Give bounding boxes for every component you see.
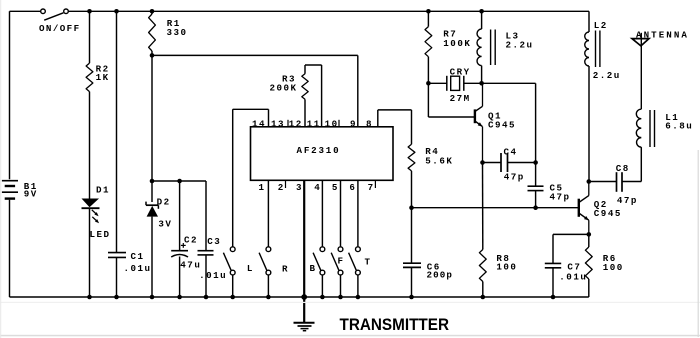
- node bottom rail C2: [177, 295, 182, 300]
- capacitor C1: [108, 253, 126, 258]
- node bottom rail switch L: [230, 295, 235, 300]
- svg-text:C945: C945: [594, 208, 622, 219]
- label C2: [184, 235, 198, 246]
- svg-text:CRY: CRY: [450, 67, 471, 78]
- node bottom rail switch B: [320, 295, 325, 300]
- switch B: [313, 247, 325, 297]
- label 200K: [270, 83, 298, 94]
- label .01u C1: [124, 263, 152, 274]
- label 9V: [24, 189, 38, 200]
- crystal CRY 27M: [428, 76, 481, 91]
- resistor R4: [408, 110, 415, 208]
- node R4 bottom junction: [409, 205, 414, 210]
- resistor R3: [302, 65, 322, 127]
- label 47p C8: [617, 195, 638, 206]
- wire pin 6 riser: [357, 180, 359, 246]
- label C945 Q1: [488, 119, 516, 130]
- switch F: [331, 247, 343, 297]
- svg-text:7: 7: [368, 182, 375, 193]
- wire pin 9 riser: [357, 55, 359, 126]
- svg-text:5: 5: [332, 182, 339, 193]
- node crystal right collector: [479, 81, 484, 86]
- node top rail L3: [479, 9, 484, 14]
- switch S1 ON/OFF: [41, 9, 69, 20]
- pin 11 label: [307, 119, 321, 130]
- pin 6 label: [349, 182, 356, 193]
- pin 9 label: [350, 119, 357, 130]
- label 47p C5: [550, 191, 571, 202]
- svg-text:3: 3: [296, 182, 303, 193]
- svg-text:6: 6: [349, 182, 356, 193]
- node Q2 emitter junction: [587, 232, 592, 237]
- label R6: [603, 253, 617, 264]
- svg-text:9V: 9V: [24, 189, 38, 200]
- label R4: [425, 146, 439, 157]
- label R2: [96, 63, 110, 74]
- label ANTENNA: [636, 30, 689, 41]
- label B1: [24, 181, 38, 192]
- op-amp IC U1 AF2310 body: [251, 127, 394, 181]
- label L3: [506, 31, 520, 42]
- label R: [282, 264, 289, 275]
- label 2.2u L2: [593, 70, 621, 81]
- node bottom rail R8: [481, 295, 486, 300]
- svg-text:47p: 47p: [617, 195, 638, 206]
- svg-text:ANTENNA: ANTENNA: [636, 30, 689, 41]
- pin 5 label: [332, 182, 339, 193]
- svg-text:1: 1: [259, 182, 266, 193]
- wire D2 to bottom rail: [151, 217, 153, 297]
- svg-text:5.6K: 5.6K: [425, 156, 453, 167]
- svg-text:T: T: [365, 257, 372, 268]
- node bottom rail switch R: [266, 295, 271, 300]
- svg-text:1K: 1K: [96, 72, 110, 83]
- pin 14 label: [252, 119, 266, 130]
- wire D1 to bottom rail: [89, 208, 91, 297]
- svg-text:D2: D2: [157, 196, 171, 207]
- node top rail R7: [426, 9, 431, 14]
- resistor R7: [425, 11, 432, 83]
- node crystal left: [426, 81, 431, 86]
- wire rail to R2: [89, 11, 91, 63]
- label 100 R6: [603, 262, 624, 273]
- wire pin 4 riser: [321, 180, 323, 246]
- svg-text:B: B: [310, 263, 317, 274]
- wire bottom ground rail: [10, 296, 589, 298]
- label C8: [616, 163, 630, 174]
- label R8: [496, 253, 510, 264]
- wire pin 8 riser: [377, 110, 379, 127]
- label 200p: [427, 270, 453, 281]
- wire pin 14 riser: [268, 109, 270, 127]
- svg-text:.01u: .01u: [199, 270, 227, 281]
- label C7: [567, 262, 581, 273]
- wire 3V to C2: [179, 181, 181, 251]
- wire down to switch L: [232, 109, 234, 247]
- node C5 bottom junction: [533, 205, 538, 210]
- wire C6 to bottom rail: [411, 267, 413, 297]
- svg-text:C2: C2: [184, 235, 198, 246]
- zener diode D2: [146, 202, 158, 217]
- pin 4 label: [314, 182, 321, 193]
- wire pin 3 riser ground: [303, 180, 305, 322]
- wire left edge from rail to battery: [9, 11, 11, 179]
- node bottom rail C6: [409, 295, 414, 300]
- label .01u C3: [199, 270, 227, 281]
- capacitor C2 electrolytic: [171, 243, 188, 257]
- node ground junction: [301, 294, 307, 300]
- label C5: [550, 183, 564, 194]
- label D1: [96, 185, 110, 196]
- pin 1 label: [259, 182, 266, 193]
- svg-text:F: F: [338, 256, 345, 267]
- label T: [365, 257, 372, 268]
- wire pin 1 riser: [267, 180, 269, 247]
- ground: [294, 323, 315, 331]
- wire C1 to bottom rail: [116, 257, 118, 297]
- pin 2 label: [278, 182, 285, 193]
- switch T: [349, 247, 361, 297]
- label R1: [167, 18, 181, 29]
- label 6.8u: [665, 121, 693, 132]
- svg-text:100: 100: [603, 262, 624, 273]
- label 3V: [158, 219, 172, 230]
- svg-text:AF2310: AF2310: [297, 145, 341, 156]
- wire Q2 emitter to C7: [553, 234, 589, 263]
- wire top supply rail main segment: [68, 10, 589, 12]
- label 47p C4: [504, 172, 525, 183]
- capacitor C8: [589, 172, 642, 192]
- svg-text:L2: L2: [594, 20, 608, 31]
- switch R: [259, 247, 271, 297]
- label 1K: [96, 72, 110, 83]
- label 2.2u L3: [506, 40, 534, 51]
- wire C7 to bottom rail: [552, 268, 554, 297]
- label L: [247, 263, 254, 274]
- pin tick after 2: [285, 180, 287, 188]
- node R1 bottom junction: [150, 53, 155, 58]
- label AF2310: [297, 145, 341, 156]
- label C3: [207, 236, 221, 247]
- wire pin 8 horizontal to R4: [378, 109, 412, 111]
- LED D1: [82, 199, 100, 224]
- pin 13 label: [271, 119, 285, 130]
- capacitor C3: [198, 251, 214, 255]
- label 100 R8: [496, 262, 517, 273]
- svg-text:27M: 27M: [450, 93, 471, 104]
- wire oscillator rail: [412, 207, 579, 209]
- label C945 Q2: [594, 208, 622, 219]
- pin 7 label: [368, 182, 375, 193]
- svg-text:C3: C3: [207, 236, 221, 247]
- node bottom rail D1: [87, 295, 92, 300]
- node bottom rail C1: [114, 295, 119, 300]
- pin tick 13-12: [287, 120, 289, 127]
- wire C3 to bottom rail: [205, 255, 207, 297]
- svg-text:200p: 200p: [427, 270, 453, 281]
- svg-text:3V: 3V: [158, 219, 172, 230]
- label R3: [282, 74, 296, 85]
- svg-text:R: R: [282, 264, 289, 275]
- wire top supply rail left segment: [10, 10, 41, 12]
- capacitor C6: [403, 263, 421, 267]
- node top rail C1 branch: [114, 9, 119, 14]
- wire C2 to bottom rail: [179, 257, 181, 298]
- svg-text:11: 11: [307, 119, 321, 130]
- svg-text:C8: C8: [616, 163, 630, 174]
- pin tick after 10: [338, 120, 340, 127]
- svg-text:10: 10: [325, 119, 339, 130]
- label F: [338, 256, 345, 267]
- svg-text:330: 330: [167, 27, 188, 38]
- svg-text:100: 100: [496, 262, 517, 273]
- inductor L2: [585, 11, 600, 181]
- antenna symbol: [632, 33, 649, 109]
- battery B1: [2, 181, 18, 199]
- label C6: [427, 261, 441, 272]
- label R7: [443, 29, 457, 40]
- label B: [310, 263, 317, 274]
- svg-text:47p: 47p: [550, 191, 571, 202]
- wire 3V node horizontal to C2 C3: [152, 180, 206, 182]
- wire R1 junction to pin9 riser: [152, 54, 358, 56]
- svg-text:12: 12: [289, 119, 303, 130]
- pin 3 label: [296, 182, 303, 193]
- resistor R2: [86, 63, 93, 92]
- wire R4 junction to C6: [411, 208, 413, 264]
- node Q2 collector junction: [587, 179, 592, 184]
- svg-text:4: 4: [314, 182, 321, 193]
- svg-text:200K: 200K: [270, 83, 298, 94]
- svg-text:D1: D1: [96, 185, 110, 196]
- pin 8 label: [366, 119, 373, 130]
- svg-text:8: 8: [366, 119, 373, 130]
- switch L: [223, 247, 235, 297]
- wire R7 node down to Q1 base: [428, 83, 474, 117]
- capacitor C5: [528, 163, 544, 208]
- label .01u C7: [559, 271, 587, 282]
- wire R1 junction down to 3V node: [151, 55, 153, 202]
- wire pin 5 riser: [340, 180, 342, 246]
- inductor L3: [477, 11, 495, 83]
- svg-text:LED: LED: [90, 229, 111, 240]
- node bottom rail D2: [150, 295, 155, 300]
- svg-text:14: 14: [252, 119, 266, 130]
- svg-text:C945: C945: [488, 119, 516, 130]
- svg-text:2: 2: [278, 182, 285, 193]
- svg-text:.01u: .01u: [559, 271, 587, 282]
- svg-text:.01u: .01u: [124, 263, 152, 274]
- label L1: [665, 112, 679, 123]
- node bottom rail switch F: [338, 295, 343, 300]
- svg-text:13: 13: [271, 119, 285, 130]
- label C1: [131, 251, 145, 262]
- label LED: [90, 229, 111, 240]
- wire rail to C1: [116, 11, 118, 252]
- label ON/OFF: [39, 23, 80, 34]
- pin tick after 7: [374, 180, 376, 188]
- svg-text:2.2u: 2.2u: [593, 70, 621, 81]
- svg-text:TRANSMITTER: TRANSMITTER: [340, 315, 450, 334]
- label 27M: [450, 93, 471, 104]
- svg-text:L: L: [247, 263, 254, 274]
- wire pin 14 horizontal: [233, 108, 269, 110]
- svg-text:6.8u: 6.8u: [665, 121, 693, 132]
- label CRY: [450, 67, 471, 78]
- label L2: [594, 20, 608, 31]
- label Q2: [594, 199, 608, 210]
- inductor L1: [636, 109, 654, 181]
- label 100K: [443, 38, 471, 49]
- resistor R1: [149, 11, 156, 55]
- transistor Q2 C945: [579, 182, 589, 235]
- node bottom rail C7: [551, 295, 556, 300]
- wire battery to bottom rail: [9, 200, 11, 297]
- pin 12 label: [289, 119, 303, 130]
- label TRANSMITTER: [340, 315, 450, 334]
- node top rail R1 branch: [150, 9, 155, 14]
- label 47u: [180, 260, 201, 271]
- node C4 right junction: [533, 160, 538, 165]
- pin 10 label: [325, 119, 339, 130]
- wire 3V to C3: [205, 181, 207, 251]
- node 3V net at D2: [150, 179, 155, 184]
- label 5.6K: [425, 156, 453, 167]
- wire collector node to C4 C5 branch: [482, 83, 536, 162]
- label 330: [167, 27, 188, 38]
- label Q1: [488, 111, 502, 122]
- node Q1 emitter junction: [480, 160, 485, 165]
- resistor R6: [585, 234, 592, 297]
- svg-text:47p: 47p: [504, 172, 525, 183]
- node bottom rail switch T: [356, 295, 361, 300]
- svg-text:100K: 100K: [443, 38, 471, 49]
- node top rail R2 branch: [87, 9, 92, 14]
- resistor R8: [479, 163, 486, 298]
- capacitor C7: [545, 263, 561, 267]
- svg-text:47u: 47u: [180, 260, 201, 271]
- svg-text:ON/OFF: ON/OFF: [39, 23, 80, 34]
- capacitor C4: [483, 153, 536, 172]
- svg-text:C4: C4: [504, 147, 518, 158]
- svg-text:2.2u: 2.2u: [506, 40, 534, 51]
- label D2: [157, 196, 171, 207]
- node 3V net C2: [177, 179, 182, 184]
- svg-text:C1: C1: [131, 251, 145, 262]
- wire R2 to LED D1: [89, 92, 91, 199]
- svg-text:9: 9: [350, 119, 357, 130]
- node bottom rail C3: [204, 295, 209, 300]
- transistor Q1 C945: [475, 83, 483, 162]
- label C4: [504, 147, 518, 158]
